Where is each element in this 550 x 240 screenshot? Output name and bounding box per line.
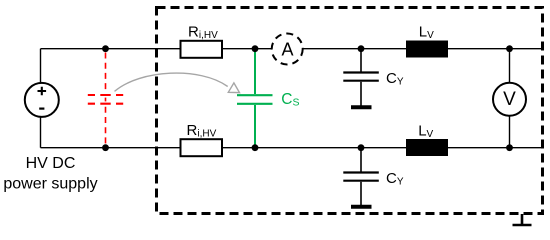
source HV DC circle [25,83,59,117]
svg-text:HV DC: HV DC [26,155,76,172]
svg-text:power supply: power supply [3,175,97,192]
source plus sign [38,87,47,96]
inductor L_V bottom (filled) [406,139,448,156]
node dot bottom V [506,144,513,151]
node dot top Cy [358,45,365,52]
node dot top V [506,45,513,52]
arrow (gray curved) from parasitic cap to C_S [115,73,228,91]
wire left vertical (source branch) [40,49,42,148]
capacitor C_Y bottom : lead [360,148,362,172]
wire bottom rail [41,147,543,149]
capacitor parasitic centre dash [105,98,107,102]
node dot top Cs [252,45,259,52]
EMI filter enclosure dashed box [157,8,543,214]
arrowhead open triangle [228,83,239,93]
svg-text:V: V [503,89,516,110]
capacitor C_Y bottom : lower lead [360,182,362,205]
wire voltmeter branch [509,49,511,148]
svg-text:A: A [281,39,293,59]
inductor L_V top (filled) [406,41,448,58]
resistor R_i,HV top [181,41,223,58]
capacitor C_S top plate [237,94,273,96]
ground symbol bottom right [513,214,532,225]
node dot bottom Cy [358,144,365,151]
capacitor C_Y bottom plates [343,171,379,173]
capacitor C_Y bottom : earth bar [351,205,372,209]
capacitor C_Y top : lead [360,49,362,72]
node dot bottom red [102,144,109,151]
node dot top red [102,45,109,52]
capacitor parasitic (red dashed) vertical top lead [105,53,107,93]
ammeter A (dashed circle) [272,34,303,65]
resistor R_i,HV bottom [181,139,223,156]
capacitor C_S (green) top lead [254,49,256,94]
voltmeter V [493,83,526,116]
capacitor C_S bottom lead [254,105,256,148]
capacitor parasitic bottom plate (dashed) [88,103,123,105]
capacitor C_Y top plates [343,71,379,73]
capacitor C_S bottom plate [237,103,273,105]
capacitor parasitic vertical bottom lead [105,107,107,147]
capacitor C_Y top : lower lead [360,82,362,106]
wire top rail [41,48,543,50]
capacitor parasitic top plate (dashed) [88,94,123,96]
capacitor C_Y top : earth bar [351,105,372,109]
source minus sign [39,107,44,109]
node dot bottom Cs [252,144,259,151]
